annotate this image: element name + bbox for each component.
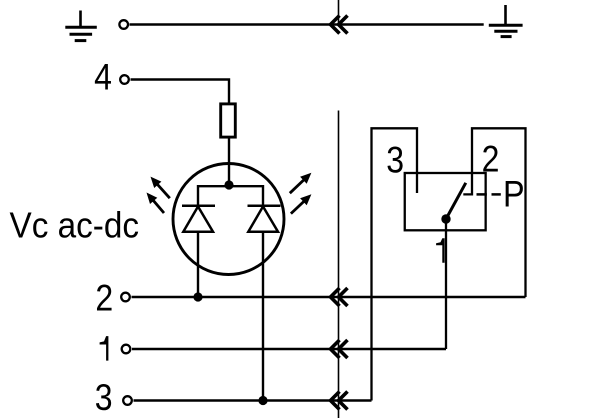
wire terminal 4 to resistor [131,80,230,103]
wire pin3 path [372,128,418,400]
LED lamp circle [173,164,284,275]
label 4 [94,57,112,98]
wire branch [198,186,263,206]
wire 1 [132,348,446,350]
LED D1 [182,206,215,232]
light arrow lower-left [147,193,165,214]
terminal 1 [122,345,131,354]
light arrow upper-left [151,177,170,199]
wire D2 cathode down [262,232,264,401]
terminal 3 [123,396,132,405]
resistor R1 [221,104,236,137]
label 3 [95,378,113,418]
terminal 4 [120,75,129,84]
svg-text:Vc ac-dc: Vc ac-dc [10,206,139,245]
wire resistor to node [228,139,230,187]
pressure switch box U1 [405,173,486,230]
LED D2 [248,206,281,232]
connector chevrons wire 3 [331,392,348,410]
cable line top [338,0,340,25]
svg-text:P: P [503,175,525,215]
label 3 (switch) [386,140,404,181]
label 1 [100,336,109,361]
connector chevrons wire 2 [331,288,348,306]
terminal GND [119,20,128,29]
label Vc ac-dc [10,206,139,245]
wire 3 [134,399,372,401]
label 2 [95,279,113,320]
wire pin1 down to wire1 [445,219,447,349]
wire pin2 path [463,128,525,297]
label 2 (switch) [482,139,500,180]
svg-text:3: 3 [95,378,113,418]
wire 2 [132,296,526,298]
switch lever [446,183,466,219]
junction dot wire2 [193,292,202,301]
label P [503,175,525,215]
svg-text:2: 2 [95,279,113,320]
ground right [489,5,523,37]
cable line main [338,111,340,418]
wire top [130,23,484,25]
svg-text:3: 3 [386,140,404,181]
svg-text:2: 2 [482,139,500,180]
dashed actuator line [477,193,501,196]
light arrow upper-right [290,173,312,194]
switch pivot dot [441,214,450,223]
connector chevrons wire 1 [331,340,348,358]
node junction dot [224,180,233,189]
light arrow lower-right [291,194,312,213]
junction dot wire3 [258,396,267,405]
wire D1 cathode down [197,232,199,297]
ground left [65,11,97,41]
terminal 2 [121,293,130,302]
label 1 (switch) [436,238,445,262]
svg-text:4: 4 [94,57,112,98]
connector chevrons top [331,16,348,34]
